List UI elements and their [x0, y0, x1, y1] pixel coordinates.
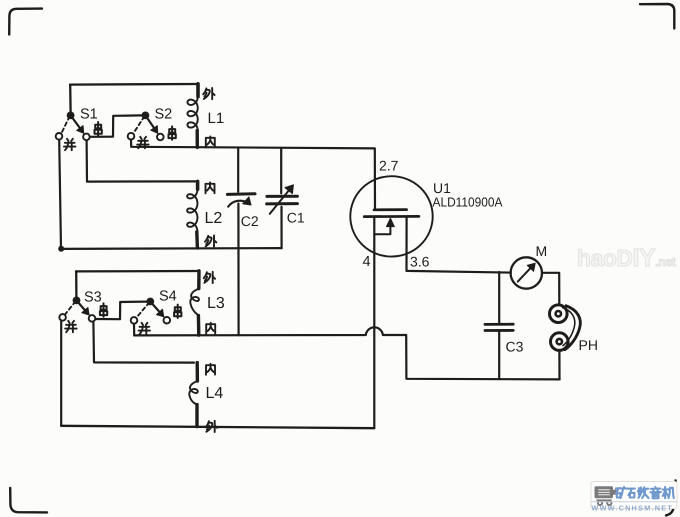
- svg-text:2.7: 2.7: [379, 158, 399, 174]
- label bing(parallel) for S4: [139, 323, 150, 334]
- wire S1 pole lead: [69, 85, 72, 113]
- label inner (nei) of L2: [206, 182, 215, 193]
- svg-text:L4: L4: [206, 385, 224, 402]
- svg-text:S4: S4: [159, 289, 177, 305]
- logo text shou (receive): [638, 487, 649, 498]
- label outer (wai) of L3: [204, 272, 215, 283]
- inductor L4 coil: [189, 381, 197, 405]
- logo text shi (stone): [628, 489, 635, 498]
- wire C3 top lead: [498, 272, 500, 324]
- svg-text:C3: C3: [506, 338, 524, 354]
- label bing(parallel) for S3: [65, 321, 76, 332]
- wire L2 outer run: [61, 247, 281, 250]
- label inner (nei) of L3: [206, 323, 215, 334]
- wire left rail lower (S3 parallel down): [60, 321, 62, 426]
- phones PH top earpiece: [550, 305, 568, 323]
- inductor L1 coil: [187, 97, 197, 131]
- wire C3 bottom lead: [498, 331, 500, 379]
- label bing(parallel) for S1: [64, 139, 75, 150]
- label inner (nei) of L4: [206, 364, 215, 375]
- wire U1 drain to meter: [407, 217, 511, 273]
- svg-text:S2: S2: [155, 107, 173, 123]
- label outer (wai) of L4: [206, 421, 217, 432]
- wire top of lower block (S3 pole to L3 outer): [76, 270, 199, 273]
- svg-text:WWW.CNHSM.NET: WWW.CNHSM.NET: [592, 504, 674, 513]
- transistor U1 channel bar: [364, 215, 419, 218]
- watermark haoDIY.net: [577, 244, 677, 272]
- svg-text:haoDIY.net: haoDIY.net: [577, 244, 677, 272]
- capacitor C1 arrow: [270, 188, 291, 214]
- inductor L4 top stub: [195, 363, 199, 381]
- inductor L4 bottom stub: [195, 405, 198, 427]
- phones PH headband: [565, 306, 580, 350]
- label chuan(series) for S1: [95, 122, 102, 135]
- wire S3-series down to L4 inner: [93, 322, 194, 363]
- wire C2 bottom lead: [237, 204, 239, 336]
- page corner mark top-left: [9, 9, 42, 35]
- wire phones bottom lead: [558, 351, 560, 379]
- capacitor C1 bottom plate: [267, 202, 298, 205]
- inductor L2 top stub: [196, 181, 200, 189]
- logo text ji (machine): [663, 487, 674, 498]
- inductor L3 top stub: [197, 271, 201, 289]
- wire node-B bus with hop over source wire: [134, 327, 559, 379]
- label chuan(series) for S3: [100, 303, 107, 316]
- label chuan(series) for S4: [174, 305, 181, 318]
- wire S1-series down to L2 inner: [87, 140, 196, 181]
- meter M circle: [511, 257, 542, 288]
- inductor L2 bottom stub: [195, 232, 199, 248]
- capacitor C1 top plate: [267, 195, 298, 198]
- wire S3-series to S4 pole step: [96, 302, 147, 320]
- wire bottom bus: [61, 426, 374, 428]
- svg-text:L2: L2: [205, 210, 223, 227]
- svg-text:ALD110900A: ALD110900A: [433, 195, 503, 210]
- switch S1: [67, 112, 75, 120]
- logo text yin (sound): [650, 487, 660, 498]
- svg-text:L1: L1: [208, 110, 225, 127]
- label inner (nei) of L1: [206, 136, 215, 147]
- inductor L3 bottom stub: [197, 315, 201, 335]
- wire meter to phones top: [542, 273, 559, 304]
- wire C2 top lead: [237, 148, 239, 192]
- switch S3: [73, 297, 81, 305]
- transistor U1 gate bar: [374, 208, 407, 211]
- wire C1 bottom lead: [280, 207, 282, 248]
- page corner mark top-right: [640, 4, 674, 29]
- wire S3 pole lead: [75, 271, 78, 297]
- svg-text:S3: S3: [84, 290, 102, 306]
- wire S2-parallel to gate bus (node A): [131, 140, 375, 210]
- junction dot L2-outer/left rail: [58, 246, 64, 252]
- capacitor C3 bottom plate: [485, 329, 513, 332]
- svg-text:C1: C1: [287, 209, 305, 225]
- inductor L1 top stub: [196, 84, 200, 97]
- logo text kuang (ore): [616, 487, 627, 498]
- page corner mark bottom-right: [666, 481, 676, 516]
- switch S2: [142, 112, 150, 120]
- svg-text:S1: S1: [80, 107, 98, 123]
- phones PH bottom earpiece: [551, 333, 569, 351]
- svg-text:PH: PH: [579, 337, 598, 353]
- wire S1-series to S2 pole step: [90, 115, 142, 136]
- svg-text:M: M: [536, 243, 548, 259]
- switch S4: [146, 298, 154, 306]
- inductor L1 bottom stub: [195, 131, 199, 148]
- svg-text:4: 4: [363, 254, 371, 270]
- label outer (wai) of L2: [205, 235, 216, 246]
- page corner mark bottom-left: [10, 488, 47, 512]
- svg-text:C2: C2: [241, 213, 259, 229]
- label chuan(series) for S2: [169, 126, 176, 139]
- transistor U1 body connection: [374, 226, 390, 234]
- capacitor C2 curved plate with arrow: [228, 201, 247, 207]
- transistor U1 circle: [350, 176, 432, 256]
- wire top (S1 pole to L1 outer): [70, 83, 198, 86]
- inductor L3 coil: [190, 289, 199, 316]
- wire U1 source down to bottom bus: [373, 217, 375, 429]
- label bing(parallel) for S2: [137, 137, 148, 148]
- inductor L2 coil: [187, 189, 197, 232]
- svg-text:L3: L3: [207, 295, 225, 312]
- meter M needle: [518, 265, 533, 281]
- capacitor C2 top plate: [227, 192, 255, 196]
- logo box: [591, 482, 677, 509]
- svg-text:3.6: 3.6: [410, 254, 430, 270]
- wire C1 top lead: [280, 148, 282, 193]
- wire S4-parallel stub: [133, 324, 135, 336]
- logo radio icon: [595, 486, 618, 506]
- wire left rail upper (S1 parallel down): [59, 140, 61, 249]
- capacitor C3 top plate: [485, 323, 513, 326]
- logo thin divider: [591, 501, 677, 503]
- label outer (wai) of L1: [203, 88, 214, 99]
